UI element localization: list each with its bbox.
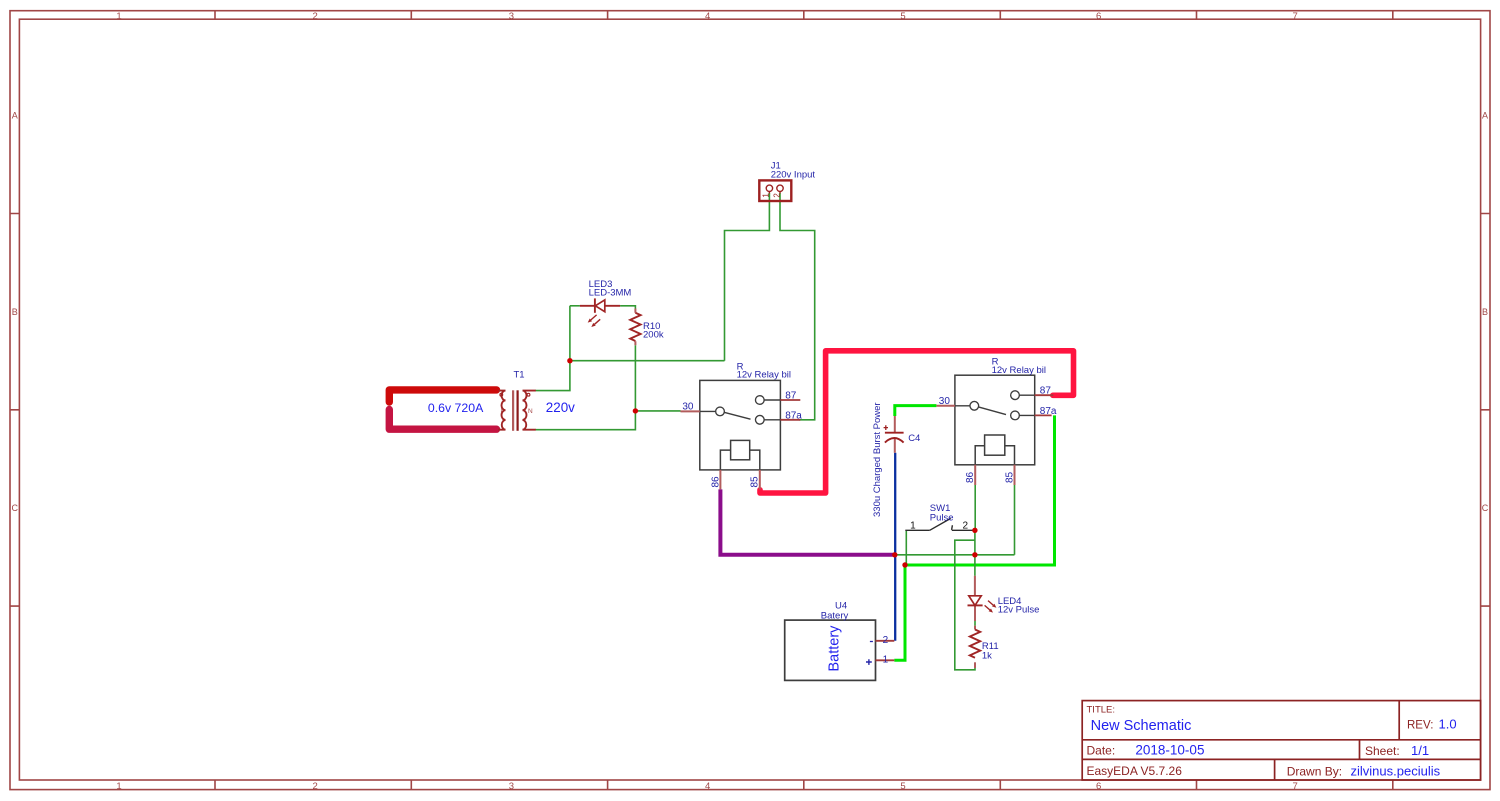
svg-text:200k: 200k xyxy=(643,330,664,341)
svg-text:I: I xyxy=(500,408,502,415)
wire LED3 left xyxy=(570,305,580,307)
svg-text:220v: 220v xyxy=(546,400,575,415)
row letters xyxy=(11,111,1488,514)
svg-text:85: 85 xyxy=(750,476,761,488)
relay R (right) 12v Relay bil xyxy=(955,375,1035,465)
wire loop R11 bottom to SW net xyxy=(955,540,975,670)
switch SW1 xyxy=(905,518,975,530)
junction dots xyxy=(567,358,977,568)
svg-text:3: 3 xyxy=(509,11,514,22)
svg-text:6: 6 xyxy=(1096,11,1101,22)
svg-text:220v Input: 220v Input xyxy=(771,170,816,181)
wire net J1 pin2 to relay1 87a xyxy=(780,193,815,420)
svg-text:2: 2 xyxy=(313,781,318,792)
svg-text:6: 6 xyxy=(1096,781,1101,792)
resistor R10 xyxy=(630,309,640,346)
battery U4 pins xyxy=(876,641,895,661)
svg-text:C: C xyxy=(1482,503,1489,513)
wire SW1 pin1 down to battery net xyxy=(905,530,907,565)
svg-text:2: 2 xyxy=(963,520,969,531)
wire thick red transformer secondary top xyxy=(389,390,496,402)
svg-text:4: 4 xyxy=(705,11,710,22)
relay R (left) pins 30/87/87a/86/85 xyxy=(681,400,801,489)
svg-text:87: 87 xyxy=(1040,385,1052,396)
svg-text:LED-3MM: LED-3MM xyxy=(589,288,632,299)
relay R (left) 12v Relay bil xyxy=(700,380,781,470)
svg-text:87a: 87a xyxy=(1040,406,1057,417)
svg-text:12v Relay bil: 12v Relay bil xyxy=(737,369,791,380)
LED4 xyxy=(974,576,976,630)
svg-text:330u Charged Burst Power: 330u Charged Burst Power xyxy=(872,402,883,517)
resistor R11 xyxy=(970,630,980,669)
wire thick crimson transformer secondary bottom xyxy=(389,410,496,430)
svg-text:Date:: Date: xyxy=(1087,744,1116,758)
svg-text:5: 5 xyxy=(900,781,905,792)
connector J1 xyxy=(759,180,791,201)
svg-text:2: 2 xyxy=(772,193,781,198)
wire thick crimson relay1 pin85 to relay2 pin87 xyxy=(760,351,1074,493)
relay R (right) pins 30/87/87a/86/85 xyxy=(936,395,1053,485)
svg-text:12v Pulse: 12v Pulse xyxy=(998,605,1040,616)
svg-text:C4: C4 xyxy=(908,433,920,444)
svg-text:Batery: Batery xyxy=(821,611,849,622)
wire relay2 pin85 down to rail xyxy=(1014,485,1016,555)
svg-text:86: 86 xyxy=(965,471,976,483)
svg-text:2: 2 xyxy=(313,11,318,22)
svg-text:30: 30 xyxy=(939,396,951,407)
svg-text:0.6v 720A: 0.6v 720A xyxy=(428,401,484,415)
svg-text:C: C xyxy=(11,503,18,513)
wire LED4 to R11 gap xyxy=(974,621,976,626)
svg-text:N: N xyxy=(528,408,533,415)
svg-text:5: 5 xyxy=(900,11,905,22)
title block xyxy=(1082,701,1480,780)
svg-text:2: 2 xyxy=(883,635,889,646)
battery plus mark xyxy=(866,659,872,665)
svg-text:87a: 87a xyxy=(785,410,802,421)
svg-text:2018-10-05: 2018-10-05 xyxy=(1135,743,1204,758)
svg-text:T1: T1 xyxy=(513,369,524,380)
battery U4 xyxy=(785,620,876,680)
svg-text:30: 30 xyxy=(682,401,694,412)
svg-text:7: 7 xyxy=(1293,781,1298,792)
svg-text:EasyEDA V5.7.26: EasyEDA V5.7.26 xyxy=(1087,764,1183,778)
transformer T1 xyxy=(498,390,536,431)
wire lime battery plus to relay2 87a xyxy=(894,415,1054,660)
svg-text:1: 1 xyxy=(910,520,916,531)
wire lime relay2 pin30 to C4 plus xyxy=(895,406,937,416)
LED3 xyxy=(580,298,620,324)
svg-text:12v Relay bil: 12v Relay bil xyxy=(992,365,1046,376)
svg-text:Battery: Battery xyxy=(827,625,843,672)
svg-text:Sheet:: Sheet: xyxy=(1365,744,1400,758)
svg-text:zilvinus.peciulis: zilvinus.peciulis xyxy=(1351,764,1441,779)
svg-text:Drawn By:: Drawn By: xyxy=(1287,765,1342,779)
svg-text:REV:: REV: xyxy=(1407,720,1433,732)
svg-text:B: B xyxy=(1482,307,1488,317)
svg-text:3: 3 xyxy=(509,781,514,792)
wire SW1 junction to LED4 xyxy=(974,530,976,576)
wire dark blue C4 minus to battery pin2 xyxy=(894,453,896,641)
svg-text:1k: 1k xyxy=(982,650,992,661)
svg-text:1: 1 xyxy=(116,11,121,22)
svg-text:B: B xyxy=(12,307,18,317)
svg-text:1/1: 1/1 xyxy=(1411,743,1429,758)
svg-text:86: 86 xyxy=(710,476,721,488)
column numbers xyxy=(116,11,1297,792)
svg-text:4: 4 xyxy=(705,781,710,792)
svg-text:7: 7 xyxy=(1293,11,1298,22)
svg-text:85: 85 xyxy=(1004,471,1015,483)
svg-text:A: A xyxy=(1482,111,1488,121)
wire relay2 pin86 to SW1 pin2 xyxy=(974,485,976,530)
wire net J1 pin1 to transformer/LED junction xyxy=(535,193,769,391)
battery minus mark xyxy=(870,641,873,643)
svg-text:87: 87 xyxy=(785,391,797,402)
wire ground rail xyxy=(895,554,1015,556)
svg-text:1: 1 xyxy=(762,193,771,198)
svg-text:New Schematic: New Schematic xyxy=(1091,718,1192,734)
svg-text:TITLE:: TITLE: xyxy=(1087,705,1116,716)
svg-text:1.0: 1.0 xyxy=(1439,717,1457,732)
svg-text:Pulse: Pulse xyxy=(930,512,954,523)
wire R10 bottom to node/relay1 pin30 and transformer bottom xyxy=(535,345,680,430)
capacitor C4 xyxy=(884,416,904,453)
svg-text:1: 1 xyxy=(883,654,889,665)
svg-text:1: 1 xyxy=(116,781,121,792)
wire LED3 right to R10 xyxy=(620,306,635,309)
svg-text:A: A xyxy=(12,111,18,121)
wire purple relay1 pin86 to rail xyxy=(720,489,894,554)
